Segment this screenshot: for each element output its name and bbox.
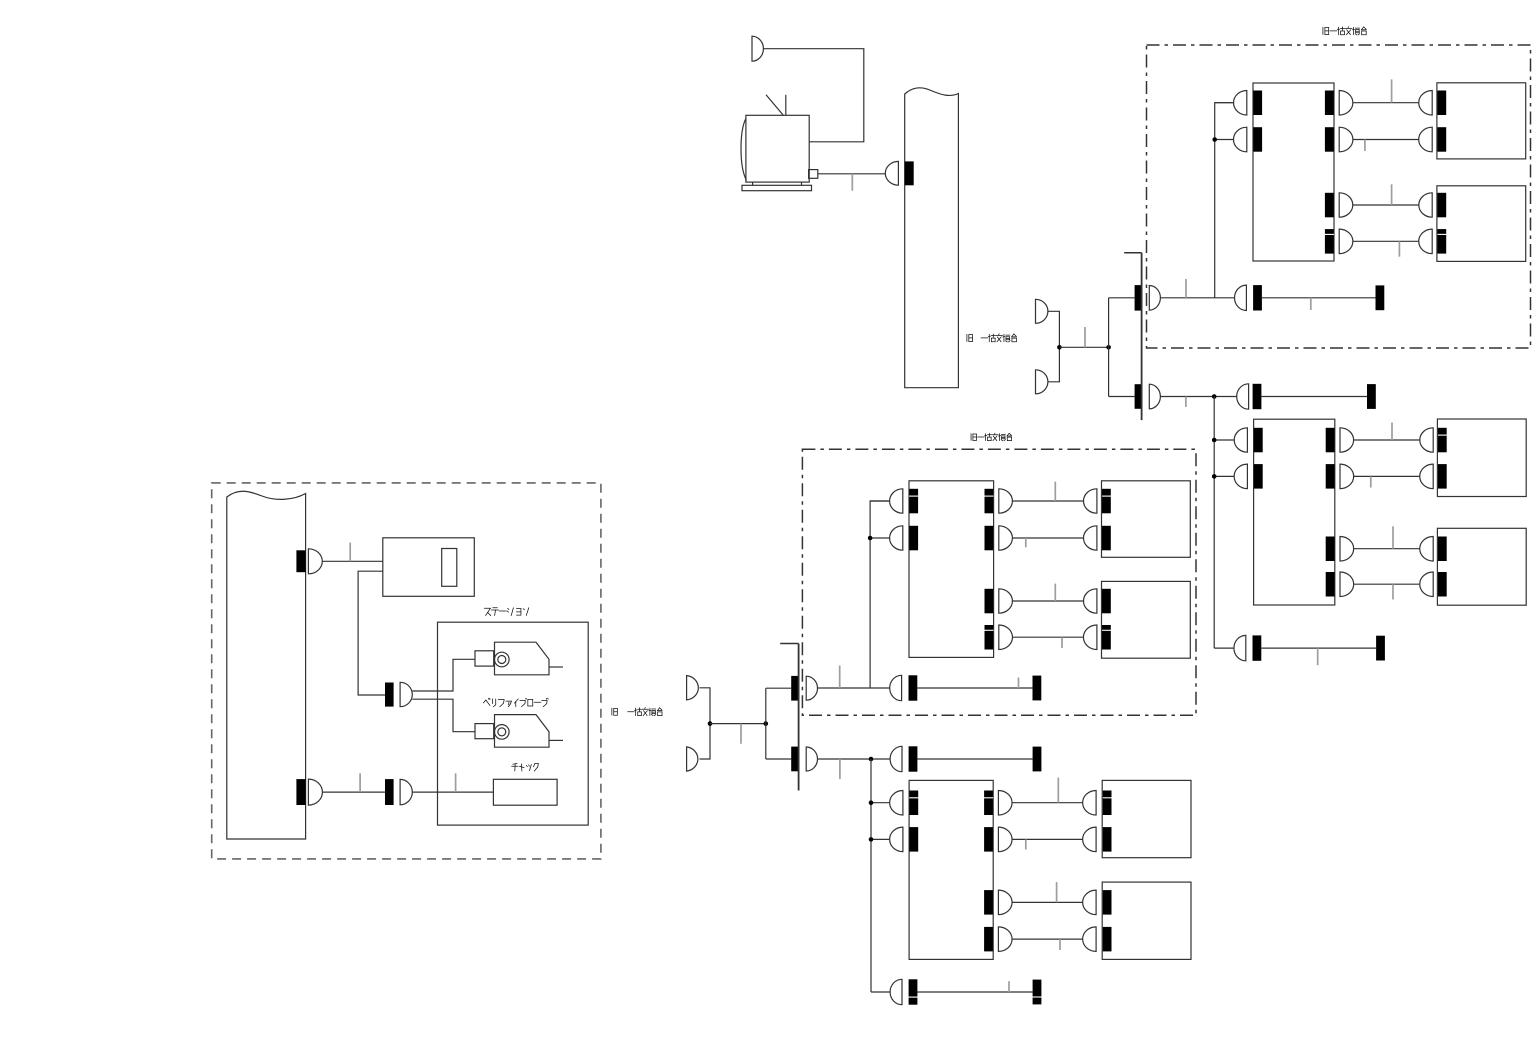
socket J1 on panel R — [905, 161, 914, 185]
verify probe 2 body — [495, 715, 550, 748]
wire fork — [1108, 298, 1110, 397]
U3 patch cable socket — [909, 675, 918, 700]
U1 right socket row3 — [1325, 193, 1334, 218]
verify probe 2 eye inner — [498, 728, 506, 736]
panel L (broken-edge board) — [227, 491, 306, 839]
plug PC3 — [806, 676, 817, 700]
U2 lower patch cable end socket — [1376, 636, 1385, 661]
U2 right socket row1 — [1326, 428, 1335, 453]
U4 terminal box A — [1102, 780, 1191, 857]
U3 patch cable plug — [890, 675, 902, 700]
U3 far plug row2 — [1083, 526, 1096, 550]
wire — [870, 500, 890, 502]
junction — [708, 721, 713, 726]
U2 terminal box A — [1437, 419, 1526, 497]
wire — [917, 758, 1032, 760]
wire — [1012, 636, 1083, 638]
leader tick — [1025, 839, 1027, 849]
leader tick — [1398, 241, 1400, 256]
wire — [710, 723, 766, 725]
U1 patch cable plug — [1235, 285, 1247, 310]
junction — [868, 536, 873, 541]
wire — [412, 791, 493, 793]
U2 far plug row2 — [1420, 464, 1433, 489]
terminal device body — [746, 115, 809, 182]
label chuck — [512, 764, 539, 772]
U4 far socket row2 — [1103, 827, 1112, 852]
leader tick — [455, 773, 457, 792]
U3 right socket row2 — [985, 526, 994, 551]
antenna vertical — [785, 95, 787, 116]
U4 left socket row2 — [909, 827, 918, 852]
hub-C input plug PC1 — [687, 676, 699, 700]
U2 lower patch cable socket — [1253, 635, 1262, 660]
junction — [869, 837, 874, 842]
controller inner window — [442, 549, 457, 587]
leader tick — [1054, 584, 1056, 601]
U4 left plug row1 — [890, 791, 903, 816]
wire — [1048, 311, 1060, 382]
plug PC4 — [806, 747, 817, 771]
wire — [700, 688, 711, 759]
U2 right socket row2 — [1326, 464, 1335, 489]
junction — [869, 757, 874, 762]
wire — [1214, 439, 1234, 441]
U4 left socket row1 — [909, 791, 918, 816]
leader tick — [1054, 482, 1056, 501]
U2 left socket row2 — [1254, 464, 1263, 489]
junction — [1212, 137, 1217, 142]
plug P11 — [308, 549, 322, 574]
wire — [1012, 802, 1083, 804]
U3 terminal box A — [1102, 481, 1191, 558]
U4 far plug row1 — [1083, 791, 1096, 816]
U3 far plug row3 — [1083, 589, 1096, 613]
U4 upper patch cable plug — [890, 746, 902, 771]
plug P12 — [400, 682, 412, 706]
probe 1 tip lead — [549, 666, 563, 668]
bus-bar R bracket — [1124, 252, 1141, 254]
wire (feed from hub-C) — [817, 687, 889, 689]
wire — [1109, 297, 1135, 299]
U2 terminal box B — [1437, 528, 1526, 605]
junction — [1106, 345, 1111, 350]
U3 far socket row3 — [1102, 589, 1111, 614]
leader tick — [1025, 538, 1027, 547]
switch unit U3 box — [909, 481, 994, 658]
U2 right plug row2 — [1340, 464, 1354, 489]
wire — [1109, 396, 1135, 398]
U4 lower patch cable plug — [890, 979, 902, 1004]
U4 right socket row1 — [984, 791, 993, 816]
wire — [1354, 583, 1420, 585]
U1 right socket row2 — [1325, 127, 1334, 152]
wire — [1353, 204, 1419, 206]
leader tick — [1185, 279, 1187, 298]
wire (feed from hub-C) — [817, 758, 890, 760]
U2 upper patch cable end socket — [1367, 384, 1376, 409]
label station — [484, 608, 529, 616]
wire — [1354, 475, 1420, 477]
junction — [1212, 394, 1217, 399]
plug P14 — [400, 779, 412, 804]
U4 far socket row3 — [1103, 890, 1112, 915]
wire — [766, 687, 791, 689]
leader tick — [1008, 981, 1010, 992]
U1 right plug row1 — [1339, 91, 1353, 116]
junction — [869, 800, 874, 805]
leader tick — [1018, 678, 1020, 689]
U2 far socket row1 — [1438, 428, 1447, 453]
bus-bar C bracket — [780, 643, 798, 645]
U2 right socket row3 — [1326, 537, 1335, 562]
U1 right plug row3 — [1339, 193, 1353, 217]
leader tick — [1317, 648, 1319, 665]
leader tick — [1370, 476, 1372, 487]
wire — [818, 173, 886, 175]
leader tick — [851, 174, 853, 191]
wire — [1262, 297, 1376, 299]
U1 far socket row3 — [1437, 193, 1446, 218]
wire — [766, 758, 791, 760]
U1 patch cable end socket — [1376, 285, 1385, 310]
terminal device CRT bulge — [741, 119, 747, 181]
U1 right plug row2 — [1339, 127, 1353, 152]
label old batch exchange board (top) — [1323, 27, 1366, 35]
U1 left plug row2 — [1233, 127, 1246, 152]
wire (feed from hub-R) — [1160, 297, 1234, 299]
station box — [438, 622, 589, 825]
U1 patch cable socket — [1253, 285, 1262, 310]
leader tick — [740, 724, 742, 744]
wire — [871, 991, 890, 993]
leader tick — [1059, 939, 1061, 950]
socket JR2 on bus-bar — [1135, 384, 1142, 409]
dash-dot enclosure (old batch exchange board, center) — [802, 449, 1196, 715]
plug P13 — [308, 779, 322, 805]
wire — [1012, 938, 1083, 940]
wire fork — [765, 688, 767, 759]
leader tick — [1056, 882, 1058, 902]
wire — [1214, 647, 1234, 649]
leader tick — [1084, 327, 1086, 347]
U2 right plug row4 — [1340, 572, 1354, 597]
U1 far plug row1 — [1419, 91, 1432, 116]
U4 upper patch cable end socket — [1033, 747, 1042, 772]
wire — [1353, 240, 1419, 242]
leader tick — [349, 543, 351, 562]
U2 far socket row3 — [1438, 537, 1447, 562]
U3 left plug row1 — [890, 489, 903, 513]
socket J13 on panel L — [296, 779, 305, 805]
leader tick — [359, 773, 361, 792]
hub-R input plug PR2 — [1036, 370, 1048, 394]
U4 far socket row1 — [1103, 791, 1112, 816]
U2 upper patch cable socket — [1253, 384, 1262, 409]
U4 right plug row2 — [998, 827, 1012, 852]
wire — [322, 791, 385, 793]
panel R (broken-edge board) — [905, 88, 959, 388]
junction — [764, 721, 769, 726]
U4 right socket row2 — [984, 827, 993, 852]
U2 right plug row1 — [1340, 428, 1354, 452]
leader tick — [1391, 79, 1393, 102]
wire — [763, 49, 864, 142]
device foot right — [801, 182, 803, 185]
wire — [1012, 600, 1083, 602]
U2 right socket row4 — [1326, 572, 1335, 597]
wire — [917, 991, 1032, 993]
socket JC1 on bus-bar — [791, 676, 799, 701]
U2 left socket row1 — [1254, 428, 1263, 453]
verify probe 1 eye inner — [498, 656, 506, 664]
U4 far plug row3 — [1083, 890, 1096, 915]
verify probe 1 holder — [475, 651, 494, 666]
wire (feed from hub-R) — [1160, 396, 1236, 398]
verify probe 1 eye outer — [495, 652, 510, 667]
U1 bus — [1215, 103, 1234, 298]
U4 terminal box B — [1102, 882, 1191, 959]
wire — [1012, 500, 1083, 502]
hub-R input plug PR1 — [1036, 299, 1048, 323]
antenna slant — [766, 95, 783, 116]
U1 far plug row2 — [1419, 127, 1433, 152]
U2 right plug row3 — [1340, 537, 1354, 562]
U4 bus — [870, 759, 872, 992]
U3 far socket row1 — [1102, 489, 1111, 514]
wire (pair upper) — [412, 659, 475, 691]
U3 left plug row2 — [890, 526, 903, 550]
wire — [1354, 548, 1420, 550]
U3 right socket row4 — [985, 625, 994, 650]
bus-bar R — [1141, 253, 1143, 420]
wire — [1012, 537, 1083, 539]
dash-dot enclosure (old batch exchange board, top) — [1147, 45, 1531, 348]
leader tick — [1364, 140, 1366, 152]
U1 left socket row2 — [1253, 127, 1262, 152]
dashed enclosure (left station section) — [212, 483, 601, 859]
U2 upper patch cable plug — [1237, 384, 1249, 409]
leader tick — [839, 666, 841, 689]
verify probe 2 eye outer — [495, 725, 510, 740]
wire — [1261, 396, 1367, 398]
label verify probe — [483, 698, 548, 707]
leader tick — [1392, 584, 1394, 599]
U1 terminal box B — [1437, 186, 1526, 262]
wire — [1214, 475, 1234, 477]
U3 right socket row3 — [985, 589, 994, 614]
verify probe 1 body — [495, 642, 550, 675]
U3 right plug row1 — [999, 489, 1013, 513]
verify probe 2 holder — [475, 724, 494, 739]
junction — [1212, 474, 1217, 479]
U4 upper patch cable socket — [909, 746, 918, 771]
U3 far socket row4 — [1102, 625, 1111, 650]
U4 right plug row3 — [998, 890, 1012, 915]
U3 left socket row2 — [909, 526, 918, 551]
wire — [1353, 139, 1419, 141]
label old batch exchange board (center) — [971, 433, 1011, 441]
U3 terminal box B — [1102, 581, 1191, 658]
chuck box — [493, 779, 557, 805]
U2 left plug row2 — [1234, 464, 1247, 489]
U2 bus — [1213, 397, 1215, 649]
U1 left socket row1 — [1253, 91, 1262, 116]
U3 left socket row1 — [909, 489, 918, 514]
U3 patch cable end socket — [1033, 676, 1042, 701]
wire — [1059, 346, 1108, 348]
U1 far plug row4 — [1419, 229, 1432, 254]
U4 right plug row1 — [998, 791, 1012, 816]
leader tick — [1057, 778, 1059, 803]
label kyu-ikkatsu board (right of panel) — [967, 334, 973, 341]
wire — [1353, 102, 1419, 104]
U1 right socket row4 — [1325, 229, 1334, 254]
leader tick — [1391, 423, 1393, 441]
U4 right socket row3 — [984, 890, 993, 915]
wire — [870, 537, 890, 539]
U3 far plug row1 — [1083, 489, 1096, 513]
U2 far socket row2 — [1438, 464, 1447, 489]
U4 right plug row4 — [998, 927, 1012, 952]
loose plug P0 (cable end) — [752, 36, 763, 61]
wire — [917, 687, 1032, 689]
switch unit U4 box — [909, 780, 993, 959]
wire — [358, 571, 385, 695]
wire — [1012, 901, 1083, 903]
socket JR1 on bus-bar — [1135, 285, 1142, 311]
U3 far socket row2 — [1102, 526, 1111, 551]
bus-bar C — [798, 644, 800, 791]
U2 left plug row1 — [1234, 428, 1247, 452]
U1 far socket row4 — [1437, 229, 1446, 254]
wire — [322, 560, 383, 562]
controller box — [383, 538, 475, 597]
socket J11 on panel L — [296, 550, 305, 572]
U4 far socket row4 — [1103, 927, 1112, 952]
socket JC2 on bus-bar — [791, 747, 799, 772]
U1 far socket row2 — [1437, 127, 1446, 152]
U1 terminal box A — [1437, 83, 1526, 159]
U2 lower patch cable plug — [1234, 635, 1246, 660]
wire — [1215, 139, 1234, 141]
U2 far plug row4 — [1420, 572, 1433, 597]
U3 right plug row4 — [999, 625, 1013, 650]
U4 far plug row2 — [1083, 827, 1096, 852]
U1 right plug row4 — [1339, 229, 1353, 254]
plug P1 — [885, 161, 898, 185]
socket J14 — [385, 779, 394, 805]
wire — [871, 838, 890, 840]
leader tick — [1391, 184, 1393, 205]
plug PR3 — [1149, 286, 1160, 311]
U4 left plug row2 — [890, 827, 903, 852]
junction — [1057, 345, 1062, 350]
device base — [742, 185, 812, 190]
leader tick — [1185, 397, 1187, 408]
socket J12 — [385, 683, 394, 707]
device foot left — [752, 182, 754, 185]
leader tick — [1310, 298, 1312, 310]
switch unit U1 box — [1253, 83, 1334, 261]
plug PR4 — [1149, 384, 1160, 409]
U4 lower patch cable socket — [909, 979, 918, 1004]
device output port — [809, 170, 818, 179]
leader tick — [839, 759, 841, 779]
U2 far plug row1 — [1420, 428, 1433, 452]
leader tick — [1392, 526, 1394, 548]
junction — [1212, 438, 1217, 443]
wire — [1012, 838, 1083, 840]
U4 right socket row4 — [984, 927, 993, 952]
U3 right plug row2 — [999, 526, 1013, 550]
U1 left plug row1 — [1234, 91, 1247, 116]
U3 far plug row4 — [1083, 625, 1096, 650]
leader tick — [1061, 637, 1063, 648]
U3 right socket row1 — [985, 489, 994, 514]
wire — [1215, 102, 1234, 104]
U3 right plug row3 — [999, 589, 1013, 613]
label kyu-ikkatsu board (center-left) — [612, 708, 617, 715]
switch unit U2 box — [1254, 419, 1335, 605]
U1 far plug row3 — [1419, 193, 1432, 217]
wire (pair lower) — [412, 699, 475, 732]
probe 2 tip lead — [549, 739, 563, 741]
U4 far plug row4 — [1083, 927, 1096, 952]
U2 far socket row4 — [1438, 572, 1447, 597]
wire — [871, 802, 890, 804]
U1 far socket row1 — [1437, 91, 1446, 116]
U2 far plug row3 — [1420, 537, 1433, 562]
U1 right socket row1 — [1325, 91, 1334, 116]
U4 lower patch cable end socket — [1033, 980, 1042, 1005]
wire — [1261, 647, 1376, 649]
hub-C input plug PC2 — [687, 747, 698, 771]
wire — [1354, 439, 1420, 441]
U3 bus — [870, 501, 890, 688]
